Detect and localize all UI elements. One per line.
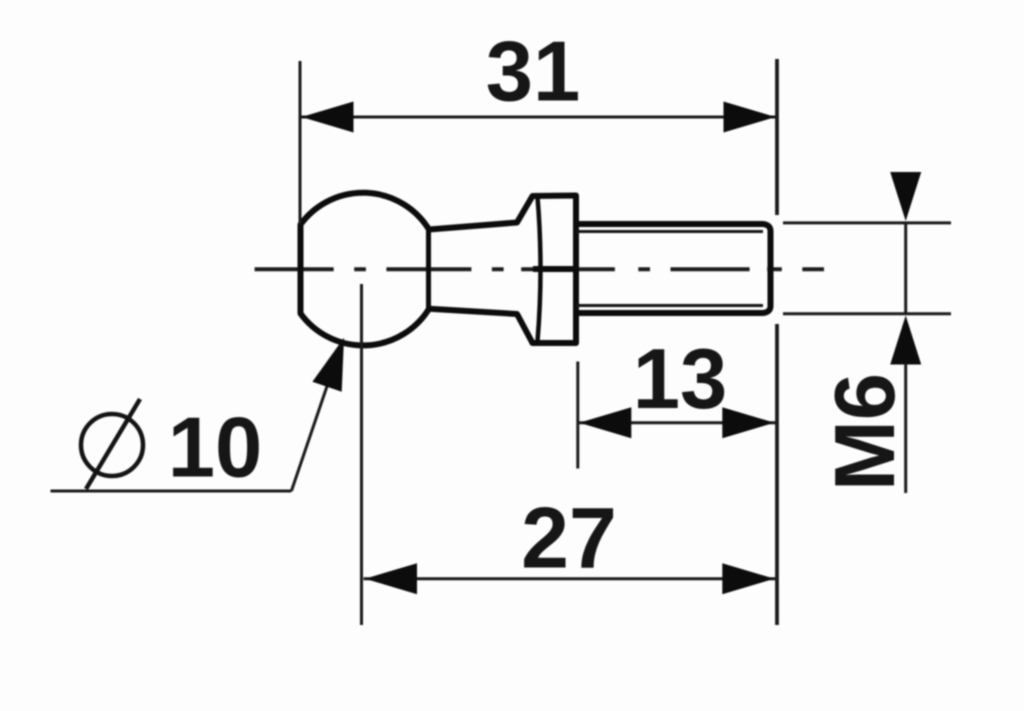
dim 13: right arrowhead [722,407,774,438]
dim 27: dimension line [364,577,776,580]
dim M6: top arrowhead [890,172,921,221]
dim M6: bottom arrow tail line [904,364,907,493]
dim M6: bottom arrowhead [890,316,921,365]
dim M6: lower extension line [783,312,951,315]
dia 10: leader line to ball [291,348,340,491]
svg-text:13: 13 [633,332,728,427]
thread minor diameter line top [576,230,763,233]
dim 27: left arrowhead [365,563,417,594]
dim 31/13/27: right extension line lower part [775,324,779,625]
ball-neck junction edge line [426,230,431,309]
dim 31: right arrowhead [724,102,776,133]
svg-text:M6: M6 [818,373,913,491]
svg-text:31: 31 [486,25,581,120]
thread minor diameter line bottom [576,304,763,307]
dim 27: right arrowhead [722,563,774,594]
dim M6: vertical connector line [904,223,907,314]
collar left facet curve [538,197,541,341]
diameter symbol circle [81,414,143,476]
dia 10: leader underline [51,490,292,493]
dia 10: leader arrowhead [312,338,344,392]
dim 27: left extension line from ball center [360,284,363,625]
svg-text:10: 10 [168,401,263,496]
dim 13: left extension line [576,362,579,469]
dim 13: dimension line [578,421,776,424]
dim M6: upper extension line [783,221,951,224]
centerline (dash-dot axis) [255,267,824,271]
threaded shaft outline [576,224,771,313]
dim 13: left arrowhead [579,407,631,438]
svg-text:27: 27 [521,491,617,587]
dim 31/13/27: right extension line upper part [775,59,779,215]
dim 31: left arrowhead [302,102,354,133]
dim 31: dimension line [300,116,777,119]
dim 31: left extension line [299,61,302,224]
diameter symbol slash [86,399,140,489]
ball stud silhouette: ball with flat, neck, shoulder, hex collar [301,193,577,346]
collar mid facet line [533,266,576,272]
